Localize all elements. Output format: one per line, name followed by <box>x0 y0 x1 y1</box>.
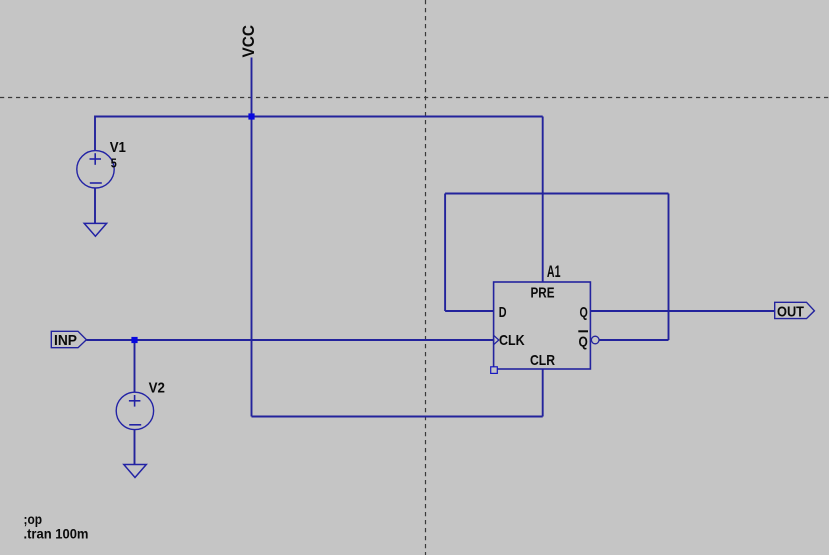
A1 corner marker square <box>491 367 498 374</box>
A1 clock wedge <box>494 335 499 344</box>
pin label Qbar overline <box>578 330 588 332</box>
svg-text:PRE: PRE <box>531 285 555 302</box>
svg-text:D: D <box>499 304 507 321</box>
wire V1 plus lead <box>94 116 96 152</box>
wire V1 minus lead to ground <box>94 188 96 223</box>
sheet origin axis (horizontal dashed) <box>0 97 829 99</box>
svg-text:Q: Q <box>580 304 589 321</box>
junction INP node <box>131 337 137 343</box>
wire feedback right vertical <box>668 194 670 341</box>
svg-text:;op: ;op <box>24 512 43 527</box>
wire feedback top horizontal <box>445 193 668 195</box>
ground below V1 <box>84 223 106 236</box>
wire bottom horizontal to CLR <box>252 416 543 418</box>
svg-text:V2: V2 <box>149 380 165 397</box>
wire PRE vertical <box>542 117 544 283</box>
svg-text:OUT: OUT <box>777 303 804 320</box>
voltage source V2 body <box>116 392 153 429</box>
port flag OUT <box>775 302 815 318</box>
svg-text:5: 5 <box>111 156 117 171</box>
wire feedback to D <box>445 310 494 312</box>
svg-text:V1: V1 <box>110 139 126 156</box>
svg-text:.tran 100m: .tran 100m <box>24 527 89 542</box>
wire INP to CLK <box>86 339 493 341</box>
wire Q to OUT <box>590 310 774 312</box>
V1 plus mark <box>90 153 102 165</box>
svg-text:INP: INP <box>54 332 77 349</box>
svg-text:CLR: CLR <box>530 352 555 369</box>
ground below V2 <box>124 465 147 478</box>
wire long vertical VCC-to-CLR <box>251 117 253 417</box>
svg-text:Q: Q <box>579 334 589 351</box>
wire Qbar to feedback <box>599 339 669 341</box>
A1 Qbar bubble <box>591 336 599 344</box>
svg-text:A1: A1 <box>547 262 561 281</box>
port flag INP <box>51 331 86 347</box>
V1 minus mark <box>90 182 102 184</box>
svg-text:CLK: CLK <box>499 332 525 349</box>
voltage source V1 body <box>77 151 114 188</box>
wire feedback left vertical <box>444 194 446 312</box>
wire VCC rail top horizontal <box>95 116 543 118</box>
wire V2 minus lead to ground <box>134 430 136 465</box>
svg-text:VCC: VCC <box>239 25 258 58</box>
wire V2 plus lead <box>134 340 136 393</box>
wire CLR stub <box>542 369 544 417</box>
V2 minus mark <box>129 424 141 426</box>
sheet origin axis (vertical dashed) <box>425 0 427 555</box>
flip-flop A1 body <box>494 282 591 369</box>
V2 plus mark <box>129 395 141 407</box>
junction VCC node <box>248 113 254 119</box>
wire VCC label stub <box>251 58 253 117</box>
